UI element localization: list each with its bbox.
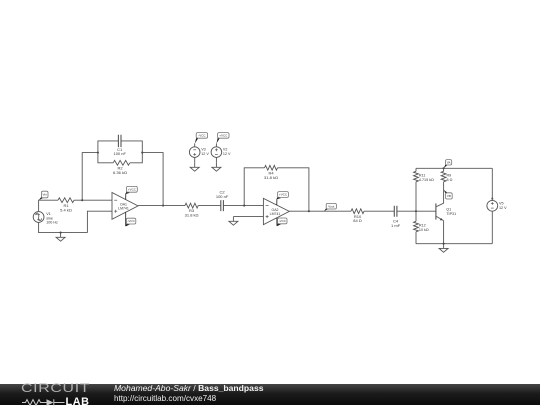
node junction VA (443, 167, 445, 169)
node junction emitter ground (443, 243, 445, 245)
svg-text:4.715 kΩ: 4.715 kΩ (419, 178, 434, 182)
node tag +VCC (OA2) (277, 192, 289, 205)
svg-text:VA: VA (447, 160, 451, 164)
resistor R2 6.36 k&#937; (113, 160, 130, 175)
voltage source V1 (sine 100 Hz) (33, 212, 58, 225)
wire V5 bottom (491, 211, 493, 244)
ground (V3) (190, 163, 199, 172)
svg-text:100 Hz: 100 Hz (46, 221, 58, 225)
ground (output stage) (439, 244, 448, 253)
node junction C1/R2 right (141, 152, 143, 154)
wire R3 to C2 (198, 205, 221, 207)
node tag VA (444, 160, 452, 169)
svg-text:-VCC: -VCC (127, 219, 135, 223)
wire R4 right riser (278, 168, 309, 211)
wire R10 to C4 (364, 210, 394, 212)
svg-text:31.8 kΩ: 31.8 kΩ (185, 213, 199, 218)
wire R1 to OA1 inverting input (74, 199, 112, 201)
svg-text:5.4 kΩ: 5.4 kΩ (60, 207, 72, 212)
wire V3 bottom stub (194, 157, 196, 162)
op-amp OA2 LM741 (263, 198, 289, 224)
node tag -VCC (V3 supply) (195, 133, 208, 144)
wire V3 top stub (194, 143, 196, 146)
svg-text:31.8 kΩ: 31.8 kΩ (264, 175, 278, 180)
resistor R4 31.8 k&#937; (264, 165, 278, 179)
wire R4 left riser (244, 168, 264, 206)
ground (input stage) (56, 233, 65, 242)
svg-text:Q1: Q1 (446, 207, 451, 211)
svg-text:LM741: LM741 (118, 207, 129, 211)
transistor Q1 TIP31 (436, 203, 456, 220)
svg-text:+VCC: +VCC (128, 187, 137, 191)
CircuitLab logo (21, 385, 111, 405)
node junction OA1 output (162, 205, 164, 207)
wire C2 to OA2 inverting input (223, 205, 263, 207)
svg-text:84 Ω: 84 Ω (353, 218, 362, 223)
resistor R9 8 &#937; (441, 168, 452, 190)
svg-text:12 V: 12 V (223, 152, 231, 156)
svg-text:100 nF: 100 nF (216, 194, 229, 199)
node tag Vin (39, 191, 48, 200)
resistor R12 10 k&#937; (414, 211, 429, 244)
svg-text:1 mF: 1 mF (391, 223, 401, 228)
svg-text:-VCC: -VCC (198, 134, 206, 138)
wire OA1 output to R3 (138, 205, 185, 207)
svg-text:TIP31: TIP31 (446, 212, 456, 216)
wire C4 to bias node (397, 210, 416, 212)
wire R2 branch (98, 153, 142, 163)
node tag -VCC (OA1) (126, 212, 136, 226)
svg-text:10 kΩ: 10 kΩ (419, 228, 429, 232)
op-amp OA1 LM741 (112, 193, 138, 220)
wire feedback right riser (142, 153, 163, 206)
wire base (416, 210, 436, 212)
wire R9 to collector (443, 191, 445, 204)
svg-text:V3: V3 (201, 148, 206, 152)
wire emitter to bottom rail (443, 221, 445, 244)
svg-text:V2: V2 (223, 148, 228, 152)
svg-text:Vout: Vout (328, 204, 334, 208)
wire OA1 non-inverting input to ground rail (87, 211, 112, 232)
svg-text:8 Ω: 8 Ω (447, 178, 453, 182)
svg-text:-VCC: -VCC (279, 219, 287, 223)
wire V2 top stub (215, 143, 217, 146)
node junction bias divider (415, 210, 417, 212)
wire V5 top (491, 168, 494, 200)
node junction feedback/R1 (81, 199, 83, 201)
svg-text:+VCC: +VCC (219, 134, 228, 138)
svg-text:LM741: LM741 (270, 212, 281, 216)
svg-text:6.36 kΩ: 6.36 kΩ (113, 170, 127, 175)
node junction C1/R2 left (97, 152, 99, 154)
capacitor C2 100 nF (216, 190, 229, 212)
wire feedback left riser (82, 153, 98, 201)
resistor R3 31.8 k&#937; (185, 203, 199, 217)
svg-text:R11: R11 (419, 174, 426, 178)
resistor R10 84 &#937; (351, 209, 364, 223)
node tag +VCC (OA1) (126, 186, 138, 199)
svg-text:R12: R12 (419, 224, 426, 228)
svg-text:R9: R9 (447, 174, 452, 178)
wire bottom rail (416, 243, 492, 245)
wire V1 bottom rail (39, 222, 88, 232)
voltage source V3 12 V (189, 147, 209, 158)
svg-text:V5: V5 (499, 201, 504, 205)
node tag -VCC (OA2) (277, 218, 287, 227)
svg-text:Vin: Vin (42, 193, 47, 197)
wire top rail (416, 167, 492, 169)
wire OA2 non-inverting input (233, 216, 263, 218)
resistor R11 4.715 k&#937; (414, 168, 434, 211)
node tag Vout (324, 203, 336, 211)
node tag VB (444, 190, 453, 199)
footer bar (0, 384, 540, 405)
svg-text:+VCC: +VCC (279, 193, 288, 197)
wire Vin node to R1 (39, 200, 58, 211)
wire C1 branch (98, 141, 142, 153)
voltage source V2 12 V (211, 147, 231, 158)
svg-text:12 V: 12 V (499, 206, 507, 210)
svg-text:100 nF: 100 nF (113, 151, 126, 156)
ground (OA2 + input) (229, 217, 238, 226)
resistor R1 5.4 k&#937; (58, 198, 74, 213)
capacitor C1 100 nF (113, 135, 126, 157)
node junction R4 left (243, 205, 245, 207)
voltage source V5 12 V (487, 200, 507, 211)
svg-text:VB: VB (447, 194, 451, 198)
node junction ground rail (60, 232, 62, 234)
node tag +VCC (V2 supply) (216, 133, 229, 144)
svg-text:12 V: 12 V (201, 152, 209, 156)
ground (V2) (212, 163, 221, 172)
wire OA2 output to R10 (289, 210, 351, 212)
wire V2 bottom stub (215, 157, 217, 162)
footer credits (114, 383, 264, 405)
node junction OA2 output (308, 210, 310, 212)
capacitor C4 1 mF (391, 206, 401, 228)
